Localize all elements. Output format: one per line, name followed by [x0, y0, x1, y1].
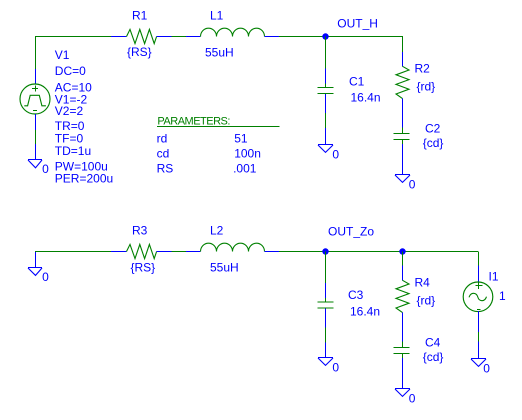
svg-text:RS: RS	[157, 162, 174, 176]
inductor L1	[186, 28, 279, 36]
svg-text:PER=200u: PER=200u	[55, 172, 113, 186]
svg-text:.001: .001	[233, 162, 257, 176]
capacitor C3	[318, 283, 334, 327]
svg-text:16.4n: 16.4n	[350, 304, 380, 318]
svg-text:{RS}: {RS}	[127, 45, 152, 59]
svg-text:OUT_H: OUT_H	[337, 17, 378, 31]
svg-text:C2: C2	[425, 122, 441, 136]
ground 0 under C4	[395, 389, 410, 397]
svg-text:C3: C3	[348, 288, 364, 302]
svg-text:55uH: 55uH	[205, 46, 234, 60]
PARAMETERS underline	[157, 126, 280, 128]
svg-text:L1: L1	[210, 9, 224, 23]
svg-text:{cd}: {cd}	[423, 350, 444, 364]
wire L2 to corner above I1	[279, 252, 479, 266]
wire I1 to ground	[478, 332, 480, 342]
svg-text:DC=0: DC=0	[55, 64, 86, 78]
svg-text:I1: I1	[489, 270, 499, 284]
svg-text:0: 0	[42, 162, 49, 176]
wire C1 to ground	[325, 113, 327, 128]
svg-text:{rd}: {rd}	[417, 80, 436, 94]
svg-text:{cd}: {cd}	[423, 136, 444, 150]
wire OUT_H junction down to C1	[325, 37, 327, 69]
wire L1 to corner above R2	[279, 36, 403, 52]
svg-text:0: 0	[42, 270, 49, 284]
svg-text:0: 0	[332, 361, 339, 375]
svg-text:V2=2: V2=2	[55, 104, 84, 118]
junction node OUT_Zo	[322, 248, 328, 254]
svg-text:OUT_Zo: OUT_Zo	[328, 225, 374, 239]
svg-text:1: 1	[499, 289, 506, 303]
wire V1 to ground	[35, 130, 37, 144]
svg-text:rd: rd	[157, 132, 168, 146]
svg-text:R1: R1	[132, 9, 148, 23]
resistor R1	[111, 29, 172, 43]
svg-text:R3: R3	[132, 224, 148, 238]
svg-text:PARAMETERS:: PARAMETERS:	[157, 116, 230, 128]
svg-text:{RS}: {RS}	[131, 261, 156, 275]
resistor R3	[111, 244, 172, 258]
wire junction down to R4	[402, 252, 404, 266]
svg-text:V1: V1	[55, 48, 70, 62]
svg-text:C4: C4	[425, 336, 441, 350]
svg-text:0: 0	[409, 391, 416, 405]
svg-text:TD=1u: TD=1u	[55, 144, 91, 158]
ground 0 under V1	[28, 144, 42, 168]
svg-text:0: 0	[483, 362, 490, 376]
capacitor C1	[318, 69, 334, 113]
current source I1	[463, 266, 493, 332]
ground 0 under C3	[318, 342, 333, 365]
ground 0 under C1	[318, 128, 333, 153]
wire C3 to ground	[325, 327, 327, 342]
svg-text:0: 0	[332, 148, 339, 162]
svg-text:cd: cd	[157, 146, 170, 160]
capacitor C2	[394, 128, 410, 174]
svg-text:100n: 100n	[234, 146, 261, 160]
junction node above R4	[399, 248, 405, 254]
svg-text:51: 51	[234, 132, 248, 146]
wire R1 to L1	[172, 36, 186, 38]
resistor R4	[396, 266, 409, 342]
wire R3 to L2	[172, 251, 186, 253]
svg-text:0: 0	[409, 177, 416, 191]
resistor R2	[396, 52, 409, 128]
svg-text:L2: L2	[210, 224, 224, 238]
ground 0 under C2	[395, 175, 410, 183]
inductor L2	[186, 243, 279, 251]
svg-text:C1: C1	[349, 75, 365, 89]
wire OUT_Zo junction down to C3	[325, 252, 327, 284]
junction node OUT_H	[322, 33, 328, 39]
ground 0 under I1	[471, 342, 486, 367]
svg-text:R2: R2	[415, 62, 431, 76]
capacitor C4	[394, 342, 410, 388]
svg-text:{rd}: {rd}	[417, 294, 436, 308]
svg-text:16.4n: 16.4n	[351, 90, 381, 104]
wire top-left corner from V1 up to R1	[35, 36, 111, 69]
wire bottom-left ground to R3	[35, 250, 111, 253]
svg-text:R4: R4	[415, 276, 431, 290]
voltage source V1	[20, 69, 50, 130]
ground 0 bottom-left	[28, 251, 42, 275]
svg-text:55uH: 55uH	[210, 261, 239, 275]
